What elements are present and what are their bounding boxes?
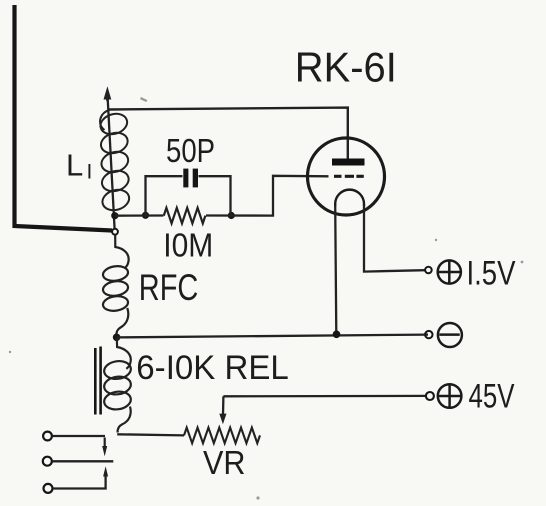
terminal ring +45V [426, 392, 434, 400]
antenna lead-in wire [15, 5, 113, 231]
wire: 45V rail [223, 395, 425, 398]
capacitor 50P [183, 169, 198, 188]
tube grid (dashed) [334, 175, 364, 178]
wire: filament left leg down to minus rail [335, 205, 336, 334]
coil RFC [102, 265, 129, 337]
tube U1 envelope [308, 138, 385, 215]
svg-text:RK-6I: RK-6I [295, 44, 397, 91]
battery symbol plus 1.5V [437, 260, 462, 284]
relay contact terminal ring bottom [44, 484, 53, 493]
tube filament (inverted U) [335, 190, 364, 206]
terminal ring minus [425, 331, 432, 338]
relay contact terminal ring top [43, 432, 52, 441]
wire: capacitor branch right rail [199, 176, 231, 215]
wire: L1 axis vertical line [108, 95, 115, 229]
resistor 10M [164, 208, 206, 224]
relay contact bottom line [53, 475, 106, 489]
node: junction dot grid-network left [142, 212, 149, 219]
wire: RFC lead from antenna tap [115, 235, 128, 269]
wire: minus rail [117, 335, 428, 338]
wire: grid bottom rail [115, 214, 164, 216]
svg-text:L: L [66, 148, 83, 183]
svg-text:I.5V: I.5V [467, 255, 516, 293]
relay contact top line [52, 435, 105, 437]
svg-text:I: I [87, 161, 93, 184]
node: junction dot filament-minus [333, 331, 341, 339]
node: junction dot L1 bottom [111, 212, 118, 219]
relay core [95, 347, 100, 415]
tube plate bar [332, 159, 365, 166]
svg-text:I0M: I0M [163, 227, 213, 264]
terminal ring +1.5V [425, 267, 432, 274]
relay contact bottom armature arrow (up) [103, 466, 108, 476]
node: junction dot grid-network right [228, 212, 235, 219]
VR wiper arrow [219, 396, 226, 424]
wire: capacitor branch left rail [146, 176, 183, 215]
svg-text:RFC: RFC [139, 267, 199, 308]
wire: relay bottom to VR [117, 434, 184, 435]
arrow (antenna direction) at top of L1 [104, 86, 112, 101]
svg-text:45V: 45V [469, 378, 515, 416]
coil L1 [98, 110, 132, 213]
svg-text:50P: 50P [166, 132, 215, 169]
wire: relay coil top lead [117, 337, 131, 368]
potentiometer VR [184, 428, 260, 444]
scan speckles [9, 97, 524, 500]
relay contact terminal ring middle [43, 457, 52, 466]
battery symbol plus 45V [437, 384, 462, 408]
wire: filament right leg to 1.5V [364, 205, 425, 272]
wire: rail from resistor to grid corner [206, 176, 329, 216]
relay contact top armature arrow (down) [102, 438, 107, 457]
node: antenna tap terminal (small ring) [112, 229, 118, 235]
svg-text:VR: VR [203, 444, 246, 481]
label L1 [66, 148, 92, 184]
relay contact middle line [52, 460, 113, 462]
svg-text:6-I0K REL: 6-I0K REL [136, 349, 288, 387]
wire: top wire from L1 to tube plate [109, 108, 348, 159]
node: junction dot RFC bottom [113, 334, 121, 342]
relay coil 6-10K REL [103, 359, 132, 432]
battery symbol minus [438, 323, 462, 347]
